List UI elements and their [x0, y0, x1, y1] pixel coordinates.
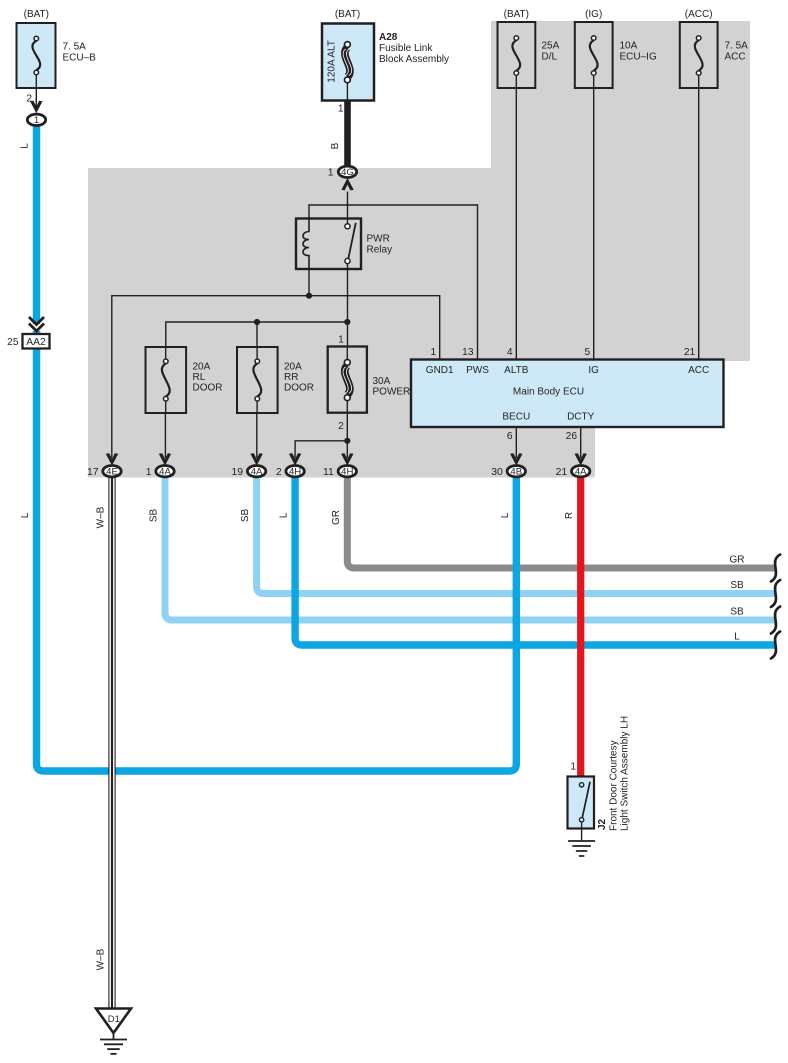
wire ECU-IG fuse to ECU pin 5 IG — [593, 76, 595, 360]
wire SB from 4A-19 — [257, 478, 776, 594]
svg-text:Main Body ECU: Main Body ECU — [513, 387, 584, 398]
svg-text:21: 21 — [684, 347, 696, 358]
wire POWER fuse pin 2 to connectors 4H — [295, 413, 347, 458]
svg-text:4H: 4H — [289, 467, 301, 478]
svg-text:6: 6 — [507, 431, 513, 442]
svg-text:1: 1 — [34, 115, 39, 126]
wire RR fuse riser — [256, 322, 258, 359]
connector oval 4H — [338, 466, 356, 477]
svg-text:4A: 4A — [251, 467, 263, 478]
svg-text:L: L — [20, 512, 31, 518]
svg-text:1: 1 — [146, 467, 152, 478]
svg-text:30: 30 — [491, 467, 503, 478]
svg-text:1: 1 — [431, 347, 437, 358]
junction at RR riser — [254, 319, 260, 325]
svg-text:GR: GR — [730, 555, 745, 566]
connector oval 1 — [27, 114, 45, 125]
svg-text:PWS: PWS — [466, 365, 489, 376]
arrow into 4A-1 — [159, 453, 171, 465]
svg-text:7. 5A: 7. 5A — [725, 41, 749, 52]
connector oval 4H — [286, 466, 304, 477]
wire ACC fuse to ECU pin 21 ACC — [698, 76, 700, 360]
inline connector AA2 — [23, 317, 50, 349]
svg-text:20A: 20A — [193, 362, 211, 373]
wire L from ECU-B fuse to connector 4B — [33, 127, 40, 325]
svg-text:19: 19 — [232, 467, 244, 478]
svg-text:W–B: W–B — [96, 506, 107, 528]
svg-text:ECU–B: ECU–B — [63, 53, 97, 64]
switch J2 Front Door Courtesy Light Switch — [568, 777, 595, 829]
svg-text:SB: SB — [730, 580, 744, 591]
ground D1 — [96, 1009, 131, 1040]
continuation mark GR wire — [771, 555, 780, 582]
svg-text:2: 2 — [276, 467, 282, 478]
svg-text:(BAT): (BAT) — [24, 9, 49, 20]
svg-text:1: 1 — [338, 335, 344, 346]
svg-text:SB: SB — [240, 509, 251, 523]
wire GR from 4H-11 — [347, 478, 775, 568]
wire ECU pin 6 BECU to connector 4B — [515, 427, 517, 458]
svg-text:1: 1 — [570, 762, 576, 773]
connector oval 4A — [156, 466, 174, 477]
wire RR fuse to connector 4A — [256, 401, 258, 458]
svg-text:25A: 25A — [542, 41, 560, 52]
fuse 30A POWER — [328, 347, 367, 414]
pin 2 of ECU-B fuse — [35, 75, 37, 108]
connector oval 4G — [338, 166, 356, 177]
svg-text:GND1: GND1 — [426, 365, 454, 376]
arrow into 4A-19 — [250, 453, 262, 465]
svg-text:10A: 10A — [620, 41, 638, 52]
svg-text:J2: J2 — [597, 818, 608, 830]
svg-text:25: 25 — [7, 337, 19, 348]
svg-text:120A ALT: 120A ALT — [327, 40, 338, 83]
svg-text:L: L — [20, 143, 31, 149]
wire J2 to ground — [581, 822, 583, 841]
fuse 7.5A ECU-B — [17, 23, 56, 88]
arrow into 4H-11 — [341, 453, 353, 465]
svg-text:5: 5 — [585, 347, 591, 358]
svg-text:21: 21 — [556, 467, 568, 478]
wire relay coil bottom to ground bus — [308, 269, 310, 296]
svg-text:L: L — [500, 512, 511, 518]
continuation mark SB wire — [771, 580, 780, 607]
arrow into 4G — [341, 178, 353, 190]
svg-text:Light Switch Assembly LH: Light Switch Assembly LH — [620, 716, 631, 831]
svg-text:(ACC): (ACC) — [685, 9, 713, 20]
wire L from 4H-2 — [295, 478, 775, 645]
svg-text:(BAT): (BAT) — [504, 9, 529, 20]
svg-text:4B: 4B — [510, 467, 522, 478]
fuse 20A RR DOOR — [237, 347, 278, 413]
svg-text:R: R — [564, 512, 575, 519]
svg-text:4A: 4A — [159, 467, 171, 478]
continuation mark L wire — [771, 632, 780, 659]
svg-text:Block Assembly: Block Assembly — [379, 54, 449, 65]
junction on ground bus — [306, 293, 312, 299]
ground at J2 — [568, 840, 595, 842]
arrow into 4B — [510, 453, 522, 465]
svg-text:DOOR: DOOR — [284, 383, 314, 394]
svg-text:IG: IG — [588, 365, 599, 376]
svg-text:PWR: PWR — [367, 234, 390, 245]
svg-text:A28: A28 — [379, 32, 398, 43]
wire branch to door fuses — [166, 322, 347, 359]
svg-text:ALTB: ALTB — [504, 365, 529, 376]
svg-text:ACC: ACC — [725, 52, 746, 63]
junction below POWER fuse — [344, 438, 350, 444]
svg-text:SB: SB — [730, 607, 744, 618]
wire D/L fuse to ECU pin 4 ALTB — [515, 76, 517, 360]
svg-text:1: 1 — [328, 167, 334, 178]
fuse 7.5A ACC — [680, 22, 718, 88]
wire relay coil top to ECU pin 13 PWS — [309, 205, 478, 360]
connector oval 4B — [507, 466, 525, 477]
svg-text:D/L: D/L — [542, 52, 558, 63]
fuse 20A RL DOOR — [146, 347, 187, 413]
svg-text:BECU: BECU — [502, 412, 530, 423]
svg-text:POWER: POWER — [373, 387, 411, 398]
wire B thick — [344, 101, 351, 166]
arrow into connector 1 — [30, 101, 42, 113]
svg-text:W–B: W–B — [96, 948, 107, 970]
wire W-B from 4E to ground D1 — [109, 478, 115, 1009]
fuse 25A D/L — [498, 22, 536, 88]
arrow into 4H-2 — [289, 453, 301, 465]
svg-text:Relay: Relay — [367, 245, 393, 256]
wire RL fuse to connector 4A — [164, 401, 166, 458]
wire SB from 4A-1 — [165, 478, 776, 620]
svg-text:1: 1 — [338, 104, 344, 115]
svg-text:4A: 4A — [575, 467, 587, 478]
wire relay switch to 30A POWER fuse — [347, 264, 349, 348]
arrow into 4A-21 — [575, 453, 587, 465]
svg-text:RL: RL — [193, 372, 206, 383]
svg-text:L: L — [279, 512, 290, 518]
connector oval 4E — [103, 466, 121, 477]
svg-text:GR: GR — [331, 510, 342, 525]
ground bus wire to ECU pin 1 GND1 — [112, 296, 440, 458]
svg-text:13: 13 — [462, 347, 474, 358]
junction-block shaded panel — [88, 21, 750, 478]
svg-text:Front Door Courtesy: Front Door Courtesy — [609, 740, 620, 831]
junction at POWER fuse feed — [344, 319, 350, 325]
arrow into 4E — [106, 453, 118, 465]
wire R from 4A-21 to J2 — [577, 478, 584, 777]
svg-text:11: 11 — [323, 467, 334, 478]
svg-text:B: B — [330, 142, 341, 149]
svg-text:4: 4 — [507, 347, 513, 358]
svg-text:AA2: AA2 — [26, 337, 46, 348]
svg-text:D1: D1 — [108, 1013, 120, 1024]
connector oval 4A — [572, 466, 590, 477]
svg-text:RR: RR — [284, 372, 298, 383]
continuation mark SB wire — [771, 607, 780, 634]
svg-text:30A: 30A — [373, 376, 391, 387]
svg-text:(BAT): (BAT) — [335, 9, 360, 20]
svg-text:(IG): (IG) — [585, 9, 602, 20]
ECU Main Body ECU — [411, 360, 724, 428]
svg-text:26: 26 — [566, 431, 578, 442]
svg-text:ACC: ACC — [688, 365, 709, 376]
svg-text:ECU–IG: ECU–IG — [620, 52, 657, 63]
svg-text:DOOR: DOOR — [193, 383, 223, 394]
wire ECU pin 26 DCTY to connector 4A — [580, 427, 582, 458]
svg-text:DCTY: DCTY — [567, 412, 595, 423]
svg-text:17: 17 — [87, 467, 99, 478]
svg-text:L: L — [734, 632, 740, 643]
connector oval 4A — [247, 466, 265, 477]
fuse 10A ECU-IG — [575, 22, 613, 88]
svg-text:7. 5A: 7. 5A — [63, 42, 87, 53]
svg-text:4H: 4H — [341, 467, 353, 478]
ground symbol at D1 — [100, 1039, 127, 1041]
svg-text:20A: 20A — [284, 362, 302, 373]
fusible link block A28 120A ALT — [322, 24, 374, 101]
svg-text:4E: 4E — [106, 467, 118, 478]
svg-text:2: 2 — [338, 421, 344, 432]
svg-text:Fusible Link: Fusible Link — [379, 43, 433, 54]
svg-text:4G: 4G — [341, 167, 354, 178]
relay PWR — [296, 219, 361, 270]
svg-text:SB: SB — [149, 509, 160, 523]
wire 4G to relay switch — [347, 192, 349, 225]
